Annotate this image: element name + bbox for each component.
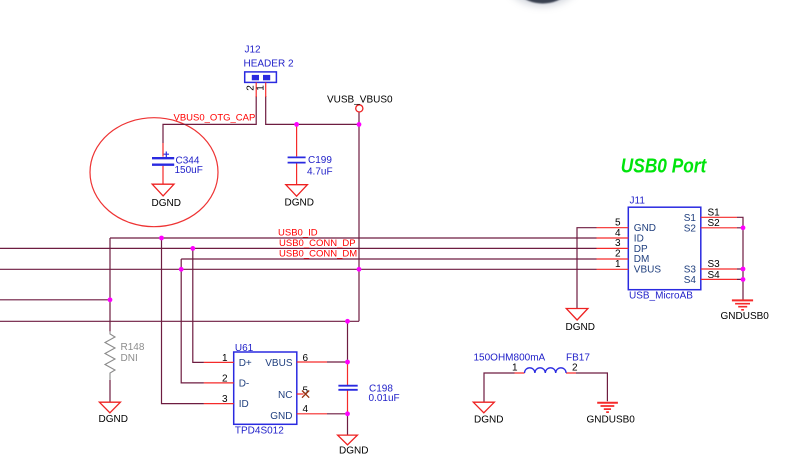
junction S3 (741, 267, 746, 272)
svg-text:S2: S2 (708, 218, 721, 229)
svg-text:HEADER 2: HEADER 2 (244, 59, 294, 70)
svg-text:2: 2 (222, 374, 228, 385)
pin J11.1 (597, 268, 629, 270)
wire J11 GND to DGND (577, 228, 597, 309)
svg-text:J12: J12 (245, 45, 262, 56)
svg-text:S3: S3 (684, 265, 697, 276)
wire vertical x=181.2 to U61 D- (181, 259, 204, 383)
ferrite bead FB17 (474, 353, 591, 374)
svg-text:TPD4S012: TPD4S012 (235, 426, 284, 437)
header J12 (244, 45, 294, 83)
svg-text:USB0_ID: USB0_ID (278, 227, 318, 238)
pin U61.4 (297, 413, 327, 415)
svg-text:S4: S4 (708, 270, 721, 281)
svg-text:1: 1 (512, 362, 518, 373)
pin J11.S1 (701, 216, 737, 218)
junction S4 (741, 277, 746, 282)
junction VBUS to J11 (357, 267, 362, 272)
svg-text:DGND: DGND (474, 415, 503, 426)
svg-text:2: 2 (572, 362, 578, 373)
IC U61 TPD4S012 (234, 343, 297, 437)
earth ground GNDUSB0 (FB17) (587, 403, 636, 426)
earth ground GNDUSB0 (J11 shield) (721, 300, 770, 322)
ground DGND (J11) (566, 309, 595, 334)
svg-text:U61: U61 (235, 343, 254, 354)
svg-text:6: 6 (303, 353, 309, 364)
pin J11.5 (597, 227, 629, 229)
junction left stub (108, 297, 113, 302)
pin J11.S3 (701, 268, 737, 270)
svg-text:D+: D+ (239, 358, 252, 369)
svg-text:150uF: 150uF (175, 165, 203, 176)
wire vertical x=192.8 to U61 D+ (193, 248, 204, 362)
svg-text:USB0_CONN_DP: USB0_CONN_DP (279, 238, 356, 249)
svg-text:ID: ID (634, 234, 644, 245)
svg-text:NC: NC (278, 390, 292, 401)
pin J11.4 (597, 237, 629, 239)
svg-text:USB_MicroAB: USB_MicroAB (629, 291, 693, 302)
svg-text:4: 4 (615, 228, 621, 239)
ground DGND (C198) (338, 435, 369, 456)
junction C198 bottom (345, 411, 350, 416)
svg-text:R148: R148 (121, 342, 145, 353)
wire U61 GND to C198 (327, 413, 348, 415)
wire vertical x=161.5 to U61 ID (162, 238, 204, 404)
svg-text:DGND: DGND (152, 198, 181, 209)
svg-text:S3: S3 (708, 259, 721, 270)
svg-text:VUSB_VBUS0: VUSB_VBUS0 (327, 95, 393, 106)
junction S2 (741, 225, 746, 230)
svg-text:1: 1 (256, 85, 267, 91)
svg-text:USB0_CONN_DM: USB0_CONN_DM (279, 248, 357, 259)
svg-text:GND: GND (270, 411, 292, 422)
wire FB17 left to DGND (484, 373, 515, 402)
svg-text:DGND: DGND (99, 414, 128, 425)
svg-text:GNDUSB0: GNDUSB0 (721, 311, 770, 322)
svg-text:DNI: DNI (121, 353, 138, 364)
wire USB0_CONN_DM (net, y=259) (181, 258, 596, 260)
wire R148 to DGND (109, 380, 111, 402)
pin J12.2 (255, 82, 257, 97)
pin J11.S4 (701, 278, 737, 280)
svg-text:ID: ID (239, 399, 249, 410)
svg-text:3: 3 (222, 394, 228, 405)
svg-text:DGND: DGND (566, 322, 595, 333)
svg-text:GNDUSB0: GNDUSB0 (587, 415, 636, 426)
svg-text:VBUS0_OTG_CAP: VBUS0_OTG_CAP (174, 113, 256, 124)
junction bottom bus (345, 319, 350, 324)
pin J11.2 (597, 258, 629, 260)
capacitor C344 (152, 143, 203, 184)
capacitor C198 (338, 364, 399, 414)
junction C198 top (345, 360, 350, 365)
wire left stub (y=299.8) (0, 299, 110, 301)
ground DGND (FB17) (473, 402, 503, 425)
pin U61.6 (297, 361, 327, 363)
wire S1 S2 to GNDUSB0 (737, 217, 743, 300)
wire U61 VBUS to C198 (327, 361, 348, 363)
camera dot (dark circle, top edge) (503, 0, 583, 6)
pin J11.3 (597, 247, 629, 249)
svg-text:DM: DM (634, 254, 650, 265)
pin U61.3 (204, 403, 234, 405)
wire C198 vertical (347, 321, 349, 435)
resistor R148 (DNI, gray) (105, 331, 145, 379)
junction C199 tap (294, 122, 299, 127)
connector J11 USB_MicroAB (628, 196, 701, 302)
wire FB17 right to GNDUSB0 (576, 373, 607, 401)
pin J12.1 (265, 82, 267, 97)
svg-text:0.01uF: 0.01uF (369, 393, 400, 404)
svg-text:D-: D- (239, 379, 250, 390)
svg-text:S4: S4 (684, 275, 697, 286)
svg-text:150OHM800mA: 150OHM800mA (474, 353, 546, 364)
ground DGND (C199) (285, 185, 314, 209)
wire vertical VUSB_VBUS0 x=359 (358, 112, 360, 321)
svg-text:S2: S2 (684, 223, 697, 234)
junction DP tap (190, 246, 195, 251)
ground DGND (R148) (99, 402, 128, 425)
svg-text:1: 1 (615, 259, 621, 270)
junction VBUS corner (357, 122, 362, 127)
svg-text:DGND: DGND (339, 446, 368, 457)
capacitor C199 (288, 126, 333, 185)
svg-text:DGND: DGND (285, 198, 314, 209)
wire bottom bus (y=321.3) (0, 320, 359, 322)
pin U61.5 (NC) (297, 393, 304, 395)
junction DM tap (179, 267, 184, 272)
svg-text:1: 1 (222, 353, 228, 364)
svg-text:S1: S1 (708, 207, 721, 218)
highlight ellipse (red markup circle around C344) (90, 118, 218, 227)
pin J11.S2 (701, 227, 737, 229)
ground DGND (C344) (152, 184, 181, 209)
wire vertical x=110 to R148 (109, 238, 111, 331)
junction USB0_ID tap (159, 236, 164, 241)
svg-text:4.7uF: 4.7uF (307, 167, 333, 178)
wire USB0_CONN_DP (net, y=248.4) (0, 247, 597, 249)
svg-text:J11: J11 (630, 196, 646, 207)
svg-text:VBUS: VBUS (265, 358, 293, 369)
svg-text:USB0 Port: USB0 Port (621, 155, 708, 177)
wire VUSB_VBUS0 row (y=269.3) (0, 268, 597, 270)
svg-text:S1: S1 (684, 213, 697, 224)
no-connect X U61.5 (302, 391, 309, 398)
pin U61.1 (204, 361, 234, 363)
wire header pin1 to VBUS net (266, 96, 359, 124)
svg-text:C199: C199 (308, 155, 332, 166)
svg-text:4: 4 (303, 404, 309, 415)
wire header pin2 to C344 (163, 96, 256, 143)
wire USB0_ID (net, y=238) (110, 237, 597, 239)
off-page connector VUSB_VBUS0 (356, 105, 363, 112)
svg-text:VBUS: VBUS (634, 265, 662, 276)
pin U61.2 (204, 382, 234, 384)
svg-text:FB17: FB17 (566, 353, 590, 364)
